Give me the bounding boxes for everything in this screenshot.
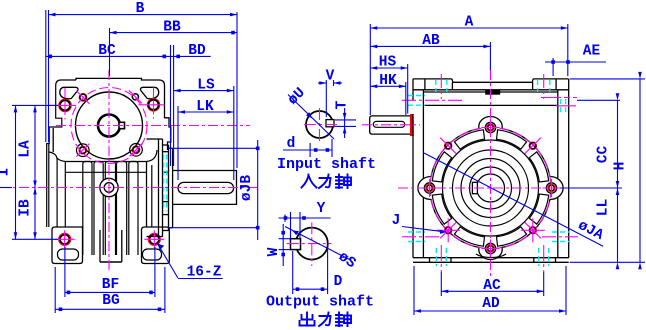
right view centerline horizontal bbox=[398, 187, 583, 189]
dimension AE bbox=[552, 58, 554, 76]
dimension IB bbox=[34, 188, 36, 240]
input shaft seal red bbox=[410, 114, 413, 136]
dimension AC bbox=[440, 272, 442, 296]
dimension I bbox=[15, 105, 17, 239]
dimension d bbox=[309, 143, 311, 157]
left view housing plate outline bbox=[47, 80, 76, 227]
flange kidney slots bbox=[529, 194, 548, 224]
svg-text:Input shaft: Input shaft bbox=[277, 156, 376, 173]
svg-text:Y: Y bbox=[317, 201, 326, 217]
svg-text:V: V bbox=[326, 69, 335, 85]
dimension oJA leader bbox=[424, 153, 603, 246]
dimension BF bbox=[64, 247, 66, 297]
output shaft caption cjk bbox=[300, 313, 352, 327]
svg-text:LS: LS bbox=[197, 78, 215, 94]
dimension W bbox=[279, 238, 291, 240]
input bolt circle magenta bbox=[71, 88, 147, 164]
dimension BB bbox=[109, 28, 111, 76]
right foot bolt hole bbox=[149, 234, 160, 245]
svg-text:AB: AB bbox=[422, 33, 440, 49]
flange face lines top bbox=[413, 89, 569, 91]
output flange strips bbox=[147, 138, 159, 140]
tab hole hidden lines top-left bbox=[435, 80, 437, 92]
output detail centerlines bbox=[287, 243, 332, 245]
svg-text:BB: BB bbox=[163, 20, 181, 36]
input shaft side view bbox=[370, 116, 411, 134]
dimension LS bbox=[233, 86, 235, 180]
svg-text:H: H bbox=[613, 162, 629, 171]
small hole upper-left bbox=[79, 94, 86, 101]
input boss face bbox=[412, 114, 414, 136]
tab hole hidden lines top-right bbox=[537, 80, 539, 92]
input shaft centerline bbox=[362, 124, 420, 126]
dimension CC bbox=[577, 99, 620, 101]
lower small hole bosses bbox=[77, 144, 90, 157]
svg-text:CC: CC bbox=[596, 146, 612, 164]
svg-text:LA: LA bbox=[18, 140, 34, 158]
svg-text:d: d bbox=[287, 136, 296, 152]
tab inner edges bbox=[424, 79, 426, 90]
flange boss circles bbox=[453, 150, 529, 226]
housing bottom bbox=[413, 257, 569, 259]
output shaft keyway bbox=[291, 239, 301, 250]
svg-text:AE: AE bbox=[583, 44, 601, 60]
right view centerline vertical bbox=[490, 70, 492, 278]
output shaft section circle bbox=[296, 228, 328, 260]
right view housing outline bbox=[413, 79, 569, 258]
svg-text:LK: LK bbox=[196, 99, 214, 115]
dimension LA bbox=[34, 105, 36, 187]
foot hole hidden lines bbox=[435, 248, 437, 266]
flange inner circle bbox=[443, 140, 539, 236]
small hole diagonal centerlines bbox=[77, 91, 90, 104]
dimension D bbox=[292, 251, 294, 294]
dimension V bbox=[325, 80, 327, 117]
dimension BG bbox=[54, 267, 56, 313]
flange lobed rim bbox=[418, 117, 563, 260]
label J leader bbox=[402, 227, 444, 232]
dimension HK bbox=[405, 82, 407, 115]
svg-text:A: A bbox=[465, 15, 474, 31]
input shaft caption cjk bbox=[302, 175, 352, 189]
svg-text:AC: AC bbox=[483, 278, 501, 294]
dimension H bbox=[570, 78, 645, 80]
left view vertical centerline bbox=[108, 70, 110, 270]
dimension Y bbox=[284, 215, 286, 223]
svg-text:HK: HK bbox=[379, 73, 397, 89]
small diagonal holes bbox=[445, 142, 452, 149]
input shaft section circle bbox=[306, 111, 333, 138]
main flange bolts bbox=[485, 122, 495, 132]
dimension LK bbox=[177, 106, 179, 180]
output shaft keyway slot bbox=[178, 182, 234, 193]
dimension oJB bbox=[168, 147, 258, 149]
svg-text:D: D bbox=[334, 274, 343, 290]
left pentagon cutout bbox=[60, 87, 78, 98]
svg-text:LL: LL bbox=[596, 199, 612, 216]
label 16-Z leader bbox=[158, 244, 178, 278]
extension line shaft end bbox=[236, 12, 238, 168]
oil plug bbox=[486, 91, 500, 94]
output shaft cylinder bbox=[173, 171, 237, 205]
output shaft circles left view bbox=[100, 178, 118, 196]
right foot bbox=[142, 227, 170, 264]
dimension oU leader bbox=[288, 95, 334, 140]
svg-text:W: W bbox=[266, 247, 282, 256]
output bore bbox=[477, 174, 505, 202]
svg-text:AD: AD bbox=[482, 296, 500, 312]
dimension T bbox=[335, 119, 356, 121]
extension lines I LA IB bbox=[12, 104, 58, 106]
input axis centerline bbox=[56, 125, 250, 127]
dimension B bbox=[45, 10, 47, 142]
right pentagon cutout bbox=[140, 87, 158, 98]
mid body bbox=[146, 162, 148, 228]
flange hidden bolt circle cyan bbox=[163, 155, 165, 212]
top-right bolt hole bbox=[148, 99, 159, 110]
mid body rib slots bbox=[83, 162, 92, 256]
left foot bolt hole bbox=[59, 234, 70, 245]
dimension BC and BD bbox=[170, 45, 172, 166]
dimension AD bbox=[413, 266, 415, 315]
dimension A bbox=[369, 24, 371, 115]
input flange big circle bbox=[76, 92, 143, 159]
bolt circle magenta bbox=[430, 128, 551, 249]
svg-text:øJB: øJB bbox=[239, 175, 255, 201]
foot pads bbox=[429, 258, 431, 263]
side hole hidden bottom-right bbox=[552, 231, 569, 233]
svg-text:BF: BF bbox=[102, 277, 119, 293]
flange bottom boss bbox=[476, 254, 506, 258]
housing inner walls bbox=[422, 90, 424, 258]
dimension AB bbox=[489, 42, 491, 70]
small hole upper-right bbox=[132, 94, 138, 100]
svg-text:Output shaft: Output shaft bbox=[266, 294, 374, 311]
top-left bolt hole bbox=[59, 100, 70, 111]
side hole hidden bottom-left bbox=[408, 231, 425, 233]
bore keyway bbox=[472, 182, 477, 193]
input shaft keyway bbox=[326, 120, 334, 127]
input bore with keyway bbox=[98, 115, 120, 137]
left foot bbox=[52, 227, 83, 264]
svg-text:BC: BC bbox=[98, 43, 116, 59]
dimension HS bbox=[407, 64, 409, 114]
input detail centerlines bbox=[304, 124, 337, 126]
input shaft keyway side bbox=[373, 121, 405, 127]
left skirt steps bbox=[49, 152, 66, 227]
small hole lower-right bbox=[132, 146, 139, 153]
svg-text:IB: IB bbox=[18, 199, 34, 217]
side hole hidden left bbox=[408, 95, 425, 97]
bottom center block bbox=[100, 261, 122, 263]
svg-text:B: B bbox=[136, 1, 145, 17]
svg-text:J: J bbox=[392, 213, 401, 229]
svg-text:HS: HS bbox=[379, 55, 397, 71]
flange strip inner steps bbox=[163, 151, 169, 153]
dimension LL bbox=[617, 188, 619, 262]
dimension oS leader bbox=[285, 227, 350, 260]
svg-text:BD: BD bbox=[188, 43, 206, 59]
bolt hole crosshairs magenta bbox=[50, 104, 76, 106]
svg-text:I: I bbox=[0, 168, 13, 177]
output axis centerline bbox=[0, 187, 260, 189]
small hole lower-left bbox=[79, 147, 86, 154]
svg-text:16-Z: 16-Z bbox=[187, 265, 222, 281]
side hole hidden right bbox=[541, 97, 577, 99]
svg-text:T: T bbox=[335, 100, 351, 109]
plate side lip inner lines bbox=[52, 128, 54, 152]
svg-text:BG: BG bbox=[102, 293, 119, 309]
